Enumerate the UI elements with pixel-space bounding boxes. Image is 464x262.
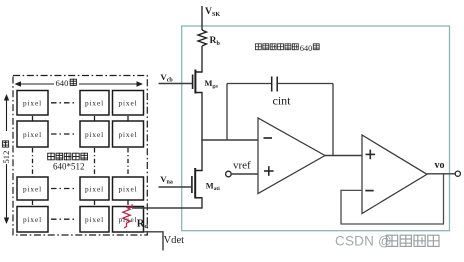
svg-text:pixel: pixel <box>118 184 137 193</box>
vertical continuation dashes <box>32 116 34 121</box>
pixel cell r2c1 <box>17 121 48 147</box>
svg-text:pixel: pixel <box>85 130 104 139</box>
svg-text:vo: vo <box>435 160 445 171</box>
U2 minus sign <box>365 190 373 192</box>
svg-text:pixel: pixel <box>23 130 42 139</box>
svg-text:640*512: 640*512 <box>53 161 85 171</box>
capacitor cint <box>272 77 278 92</box>
svg-text:640: 640 <box>56 78 69 88</box>
svg-text:pixel: pixel <box>85 184 104 193</box>
op-amp U2 (buffer) <box>362 135 427 214</box>
wire: Vna gate lead <box>159 186 192 188</box>
pixel cell r2c2 <box>80 121 109 147</box>
svg-text:512: 512 <box>1 151 11 164</box>
label readout circuit array 640 col (CJK) <box>255 43 262 50</box>
wire: U2 feedback loop <box>341 174 444 224</box>
pixel cell r3c3 <box>113 177 144 200</box>
pixel cell r1c1 <box>17 91 48 116</box>
svg-text:pixel: pixel <box>85 99 104 108</box>
wire: detector line from pixel array <box>132 207 203 209</box>
transistor Mati <box>192 168 203 199</box>
pixel cell r3c2 <box>80 177 109 200</box>
terminal vref <box>226 171 232 177</box>
svg-text:640: 640 <box>300 44 312 53</box>
wire: pixel to Vdet stub <box>144 232 164 251</box>
svg-text:pixel: pixel <box>23 215 42 224</box>
svg-text:pixel: pixel <box>118 130 137 139</box>
label 512(row), rotated <box>1 151 11 164</box>
pixel cell r4c1 <box>17 207 48 233</box>
wire: vref to U1 plus input <box>231 173 258 175</box>
pixel cell r2c3 <box>113 121 144 147</box>
node VSK : supply wire <box>201 6 203 30</box>
label detector-array (5 CJK chars) <box>47 153 54 160</box>
detector array dash-dot border <box>13 76 147 236</box>
svg-text:pixel: pixel <box>118 99 137 108</box>
dimension arrow 512 rows <box>4 94 9 224</box>
svg-text:pixel: pixel <box>85 215 104 224</box>
resistor Rb <box>198 30 207 46</box>
pixel cell r4c2 <box>80 207 109 233</box>
wire: cint feedback left vertical <box>226 84 228 141</box>
U2 plus sign <box>366 150 376 160</box>
pixel cell r1c3 <box>113 91 144 116</box>
svg-text:cint: cint <box>273 94 292 108</box>
wire: Mga source to summing node <box>201 93 203 141</box>
wire: Rb to Mga drain <box>201 46 203 72</box>
wire: cint feedback top left segment <box>227 83 272 85</box>
detector resistor Rd (red, inside pixel r4c3) <box>123 204 132 228</box>
svg-text:pixel: pixel <box>23 184 42 193</box>
wire: Vcb gate lead <box>159 83 193 85</box>
U1 minus sign <box>264 137 273 139</box>
svg-text:CSDN @: CSDN @ <box>335 234 392 249</box>
svg-text:Vdet: Vdet <box>164 235 185 246</box>
transistor Mga <box>193 70 203 94</box>
wire: U1 output to U2 plus input <box>325 155 362 157</box>
horizontal continuation dashes <box>51 102 77 104</box>
svg-text:pixel: pixel <box>23 99 42 108</box>
op-amp U1 (integrator) <box>258 118 325 194</box>
wire: summing node down to Mati drain <box>201 140 203 171</box>
terminal vo <box>455 171 460 176</box>
wire: summing node to U1 inverting input <box>201 139 258 141</box>
wire: cint feedback right vertical <box>332 84 334 156</box>
wire: U2 output <box>427 173 455 175</box>
pixel cell r4c3 <box>113 207 144 233</box>
wire: Mati source down to detector line <box>201 198 203 208</box>
wire: cint feedback top right segment <box>277 83 333 85</box>
U1 plus sign <box>264 166 274 176</box>
svg-text:vref: vref <box>233 159 251 171</box>
pixel cell r1c2 <box>80 91 109 116</box>
pixel cell r3c1 <box>17 177 48 200</box>
readout circuit teal frame <box>182 26 450 231</box>
dimension arrow 640 columns <box>15 81 144 86</box>
